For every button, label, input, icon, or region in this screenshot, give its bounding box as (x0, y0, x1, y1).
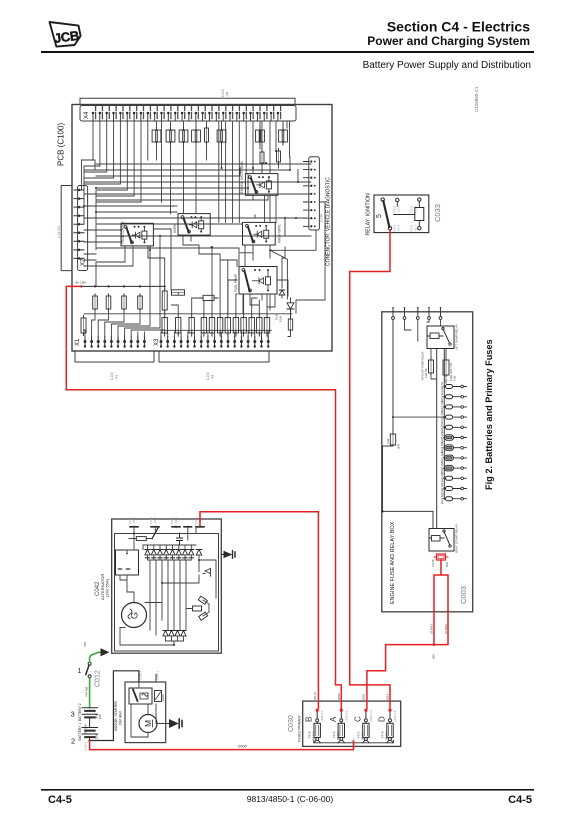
svg-text:RELAY: IGNITION: RELAY: IGNITION (366, 193, 372, 236)
diode right (196, 550, 202, 556)
fuse FX3-1 (164, 314, 166, 336)
svg-text:Fig 2. Batteries and Primary F: Fig 2. Batteries and Primary Fuses (484, 339, 494, 490)
switch C012 battery isolator (88, 662, 91, 665)
alternator C042 (112, 519, 222, 653)
svg-text:62 2516: 62 2516 (444, 623, 448, 634)
svg-text:50A 8M7: 50A 8M7 (84, 723, 88, 734)
svg-text:C100: C100 (110, 372, 114, 380)
fuse FX3-12 (266, 314, 268, 336)
svg-text:CE38-2-B: CE38-2-B (393, 710, 397, 722)
battery 1 (82, 728, 98, 735)
svg-text:X2: X2 (81, 258, 87, 266)
switch blade pin 5 (381, 198, 384, 201)
resistor horizontal pair mid (172, 290, 185, 295)
svg-text:B: B (305, 717, 314, 722)
switch blade C042 (152, 528, 158, 539)
starter solenoid (129, 688, 152, 704)
off-page arrow TO A (99, 651, 102, 653)
svg-text:62 8516: 62 8516 (430, 623, 434, 634)
wire C003 to fuse C (367, 560, 448, 709)
svg-text:MOTOR: STARTER: MOTOR: STARTER (114, 700, 118, 731)
svg-text:FU15 20A: FU15 20A (440, 431, 444, 443)
svg-text:WASH WIPE: WASH WIPE (278, 225, 282, 243)
connector vehicle diagnostic C098 (309, 157, 320, 230)
wire battery feed ST3 to fuse A (66, 286, 341, 708)
fuse FF-C (365, 710, 367, 719)
svg-text:Power and Charging System: Power and Charging System (367, 34, 530, 48)
fuse FU17 20A (445, 455, 454, 461)
svg-text:-X3-P: -X3-P (397, 205, 401, 213)
JCB logo (50, 22, 81, 47)
relay HORN (178, 214, 210, 236)
svg-text:C030: C030 (288, 715, 295, 732)
svg-text:-X5-1: -X5-1 (132, 517, 136, 524)
svg-text:C030-70-A: C030-70-A (369, 709, 373, 722)
wire alternator B+ to fuse B (200, 512, 318, 709)
fuse FU5 (430, 358, 432, 375)
C003 top pins (393, 309, 441, 317)
connector cover C100-X4 (80, 98, 295, 104)
connector cover C100-X1 (75, 352, 154, 362)
starter internal wires (131, 682, 166, 737)
svg-text:50.0 A: 50.0 A (360, 731, 364, 740)
fuse box C030 (303, 701, 401, 746)
svg-text:50.0 A: 50.0 A (312, 731, 316, 740)
fuse FU18 20A (445, 465, 454, 471)
resistor R-end (290, 317, 292, 333)
wire battery to starter (90, 671, 139, 741)
svg-text:50.0 A: 50.0 A (336, 731, 340, 740)
svg-text:-X1: -X1 (115, 375, 119, 380)
capacitor pair C2 (170, 127, 172, 145)
svg-text:FU1A: FU1A (431, 559, 435, 566)
svg-text:X1: X1 (75, 338, 81, 346)
wire battery positive bus 2000 (90, 741, 354, 750)
svg-text:FU16 20A: FU16 20A (440, 441, 444, 453)
svg-text:LIFT PUMP RELAY: LIFT PUMP RELAY (455, 324, 459, 350)
svg-text:2000: 2000 (238, 743, 248, 748)
svg-text:FU13 15A: FU13 15A (440, 411, 444, 423)
svg-text:C003: C003 (459, 586, 468, 604)
resistor single top row (206, 126, 208, 145)
svg-text:50A: 50A (95, 734, 99, 739)
resistor R4 (139, 285, 141, 287)
connector X2 pins (74, 190, 84, 258)
svg-text:-X3-3: -X3-3 (414, 205, 418, 213)
svg-text:FU17 20A: FU17 20A (440, 451, 444, 463)
wire green battery isolator (90, 652, 99, 707)
fuse FX3-9 (243, 314, 245, 336)
svg-text:FU12 10A: FU12 10A (440, 400, 444, 412)
diode bridge row 1 (145, 550, 194, 555)
fuse FU10 5A (446, 385, 453, 389)
svg-text:FU6: FU6 (453, 375, 457, 381)
node battery positive (89, 737, 91, 740)
svg-text:686: 686 (432, 654, 436, 659)
relay ENGINE SHUTDOWN (245, 174, 278, 196)
svg-text:Battery Power Supply and Distr: Battery Power Supply and Distribution (363, 60, 531, 71)
relay FUEL PUMP (239, 267, 277, 295)
node ST3 bus (81, 285, 165, 287)
svg-text:CE38-2-B: CE38-2-B (344, 710, 348, 722)
fuse FX3-8 (235, 314, 237, 336)
svg-text:C049-1: C049-1 (156, 670, 160, 680)
svg-text:-X3: -X3 (211, 375, 215, 380)
svg-text:C18 5/3: C18 5/3 (57, 226, 61, 238)
fuse FX3-5 (211, 314, 213, 336)
svg-text:C: C (353, 716, 362, 722)
svg-text:-X6-1: -X6-1 (397, 224, 401, 232)
resistor right column (278, 149, 280, 165)
diode D2 (279, 290, 285, 295)
fuse FU15 20A (445, 435, 454, 441)
bracket ST3/X2 cover (61, 186, 72, 271)
bus line lower PCB (84, 313, 292, 315)
svg-text:C098: C098 (320, 214, 324, 222)
resistor R2 (107, 285, 109, 287)
fuse F-X1 (83, 316, 85, 336)
fuse FF-D (389, 710, 391, 719)
svg-text:-X4-1: -X4-1 (174, 517, 178, 524)
svg-text:C045-1: C045-1 (83, 741, 87, 751)
connector X4 (80, 106, 296, 122)
svg-text:JCB: JCB (53, 28, 80, 46)
connector X4 pins (96, 107, 281, 119)
svg-text:8M7: 8M7 (98, 713, 102, 719)
svg-text:1: 1 (78, 668, 82, 675)
svg-text:9813/4850-1 (C-06-00): 9813/4850-1 (C-06-00) (247, 794, 334, 804)
wire mesh PCB (82, 121, 326, 337)
fuse FU16 20A (445, 445, 454, 451)
fuse FX3-4 (203, 314, 205, 336)
ground chassis starter (166, 723, 170, 725)
svg-text:Section C4 - Electrics: Section C4 - Electrics (387, 19, 530, 35)
relay lift pump (427, 326, 454, 349)
regulator box (116, 550, 139, 575)
capacitor pair C1 (156, 127, 158, 145)
svg-text:C126860-C1: C126860-C1 (474, 86, 479, 112)
relay FRONT.CHECK (121, 223, 153, 246)
footer (41, 789, 534, 806)
resistor R1 (94, 285, 96, 287)
battery 2 (82, 708, 98, 715)
resistor field (136, 537, 146, 541)
svg-text:FUSES: PRIMARY: FUSES: PRIMARY (298, 714, 302, 742)
svg-text:BATTERY 2: BATTERY 2 (78, 703, 82, 721)
fuse FU21 5A (446, 497, 453, 501)
C042 internal wires (120, 527, 216, 645)
C042 terminals (133, 526, 135, 528)
diode D1 (287, 299, 294, 319)
capacitor pair C3 (183, 127, 185, 145)
wire battery link (89, 717, 91, 727)
svg-text:50.0 A: 50.0 A (385, 731, 389, 740)
svg-text:(24V 55A): (24V 55A) (105, 578, 110, 597)
connector cover C100-X3 (159, 352, 269, 362)
capacitor pair C4 (195, 127, 197, 145)
svg-text:HORN: HORN (173, 223, 177, 233)
relay ignition C033 (374, 195, 429, 233)
zener diode (203, 568, 211, 576)
svg-text:CE38-2-A: CE38-2-A (320, 710, 324, 722)
svg-text:HEAT. START RELAY: HEAT. START RELAY (455, 524, 459, 553)
fuse FU19 10A (446, 476, 453, 480)
svg-text:D: D (378, 716, 387, 722)
svg-text:5: 5 (376, 214, 383, 218)
svg-text:A: A (329, 716, 338, 722)
wire ignition relay to fuse D (350, 230, 390, 709)
coil C033 (415, 208, 424, 221)
svg-text:M: M (143, 720, 153, 727)
fuse FX3-6 (219, 314, 221, 336)
svg-text:1015: 1015 (361, 693, 365, 700)
fuse FX3-7 (227, 314, 229, 336)
slip rings (193, 596, 208, 620)
PCB C100 (72, 105, 332, 352)
fuse FU12 10A (446, 405, 453, 409)
svg-text:CONENCTOR: VEHICLE DIAGNOSTIC: CONENCTOR: VEHICLE DIAGNOSTIC (326, 177, 332, 266)
fuse FU14 5A (446, 425, 453, 429)
svg-text:C4-5: C4-5 (508, 794, 532, 806)
connector X3 pins (161, 337, 268, 348)
svg-text:FU19 10A: FU19 10A (440, 472, 444, 484)
fuse FU20 5A (446, 487, 453, 491)
svg-text:-X2-1: -X2-1 (153, 517, 157, 524)
capacitor pair C6 (259, 127, 261, 145)
svg-text:-X4: -X4 (226, 92, 230, 97)
fuse FU11 5A (446, 395, 453, 399)
svg-text:-X1-1: -X1-1 (414, 224, 418, 232)
svg-text:50A: 50A (445, 562, 449, 567)
fuse FX3-11 (258, 314, 260, 336)
pin 87 (396, 198, 399, 201)
fuse FF-A (340, 710, 342, 719)
svg-text:24V 4kW: 24V 4kW (119, 710, 123, 725)
svg-text:768: 768 (83, 642, 87, 647)
capacitor (177, 533, 183, 545)
svg-text:HYD LIFT PUMP RELAY: HYD LIFT PUMP RELAY (421, 351, 425, 380)
fuse FU13 15A (446, 415, 453, 419)
capacitor pair C5 (221, 127, 223, 145)
svg-text:C100: C100 (221, 89, 225, 97)
motor M (139, 715, 157, 733)
generator G (122, 603, 147, 628)
resistor R3 (123, 285, 125, 287)
starter aux component (155, 691, 162, 702)
fuse FX3-10 (251, 314, 253, 336)
connector X2 (78, 186, 88, 271)
svg-text:3000: 3000 (337, 693, 341, 700)
svg-text:FU4: FU4 (386, 438, 390, 444)
fuse FU6 (445, 358, 447, 377)
svg-text:744 4M: 744 4M (84, 686, 88, 697)
svg-text:FU5 5A: FU5 5A (424, 368, 428, 378)
engine fuse and relay box C003 (382, 312, 473, 612)
svg-text:8 1/8: 8 1/8 (275, 314, 279, 320)
svg-text:BATTERY 1: BATTERY 1 (78, 723, 82, 741)
relay glow plug (429, 529, 454, 552)
fuse FX3-2 (177, 314, 179, 336)
svg-text:C4-5: C4-5 (48, 794, 72, 806)
connector X1 pins (85, 337, 144, 348)
svg-text:50 16: 50 16 (313, 692, 317, 700)
svg-text:FUEL PUMP: FUEL PUMP (234, 274, 238, 292)
svg-text:1014: 1014 (386, 693, 390, 700)
C003 internal bus wires (437, 349, 445, 529)
svg-text:3: 3 (71, 710, 75, 719)
svg-text:2: 2 (71, 737, 75, 746)
svg-text:X4: X4 (84, 111, 90, 119)
C030 bottom bus (314, 740, 394, 743)
svg-text:PCB (C100): PCB (C100) (57, 123, 66, 166)
starter motor box (125, 682, 166, 743)
svg-text:8 1/8: 8 1/8 (279, 316, 283, 322)
capacitor pair C7 (282, 127, 284, 145)
svg-text:FU18 20A: FU18 20A (440, 462, 444, 474)
svg-text:C039-1: C039-1 (139, 670, 143, 680)
svg-text:50A: 50A (95, 714, 99, 719)
fuse FX3-3 (191, 314, 193, 336)
fuse FU4 (392, 434, 394, 445)
svg-text:C033: C033 (433, 204, 442, 222)
svg-text:8A 1 M6: 8A 1 M6 (76, 281, 87, 285)
svg-text:C100: C100 (206, 372, 210, 380)
svg-text:30A: 30A (397, 444, 401, 449)
svg-text:C012: C012 (95, 670, 102, 687)
ground chassis C042 (221, 554, 224, 556)
fuse FU1 (red) (434, 556, 448, 558)
header (41, 19, 534, 72)
svg-text:ENGINE FUSE AND RELAY BOX: ENGINE FUSE AND RELAY BOX (390, 521, 396, 604)
svg-text:HOLD: HOLD (161, 694, 165, 701)
fuse FF-B (316, 710, 318, 719)
relay WASH WIPE (243, 222, 276, 245)
diode row 2 (163, 631, 186, 636)
svg-text:X3: X3 (154, 338, 160, 346)
